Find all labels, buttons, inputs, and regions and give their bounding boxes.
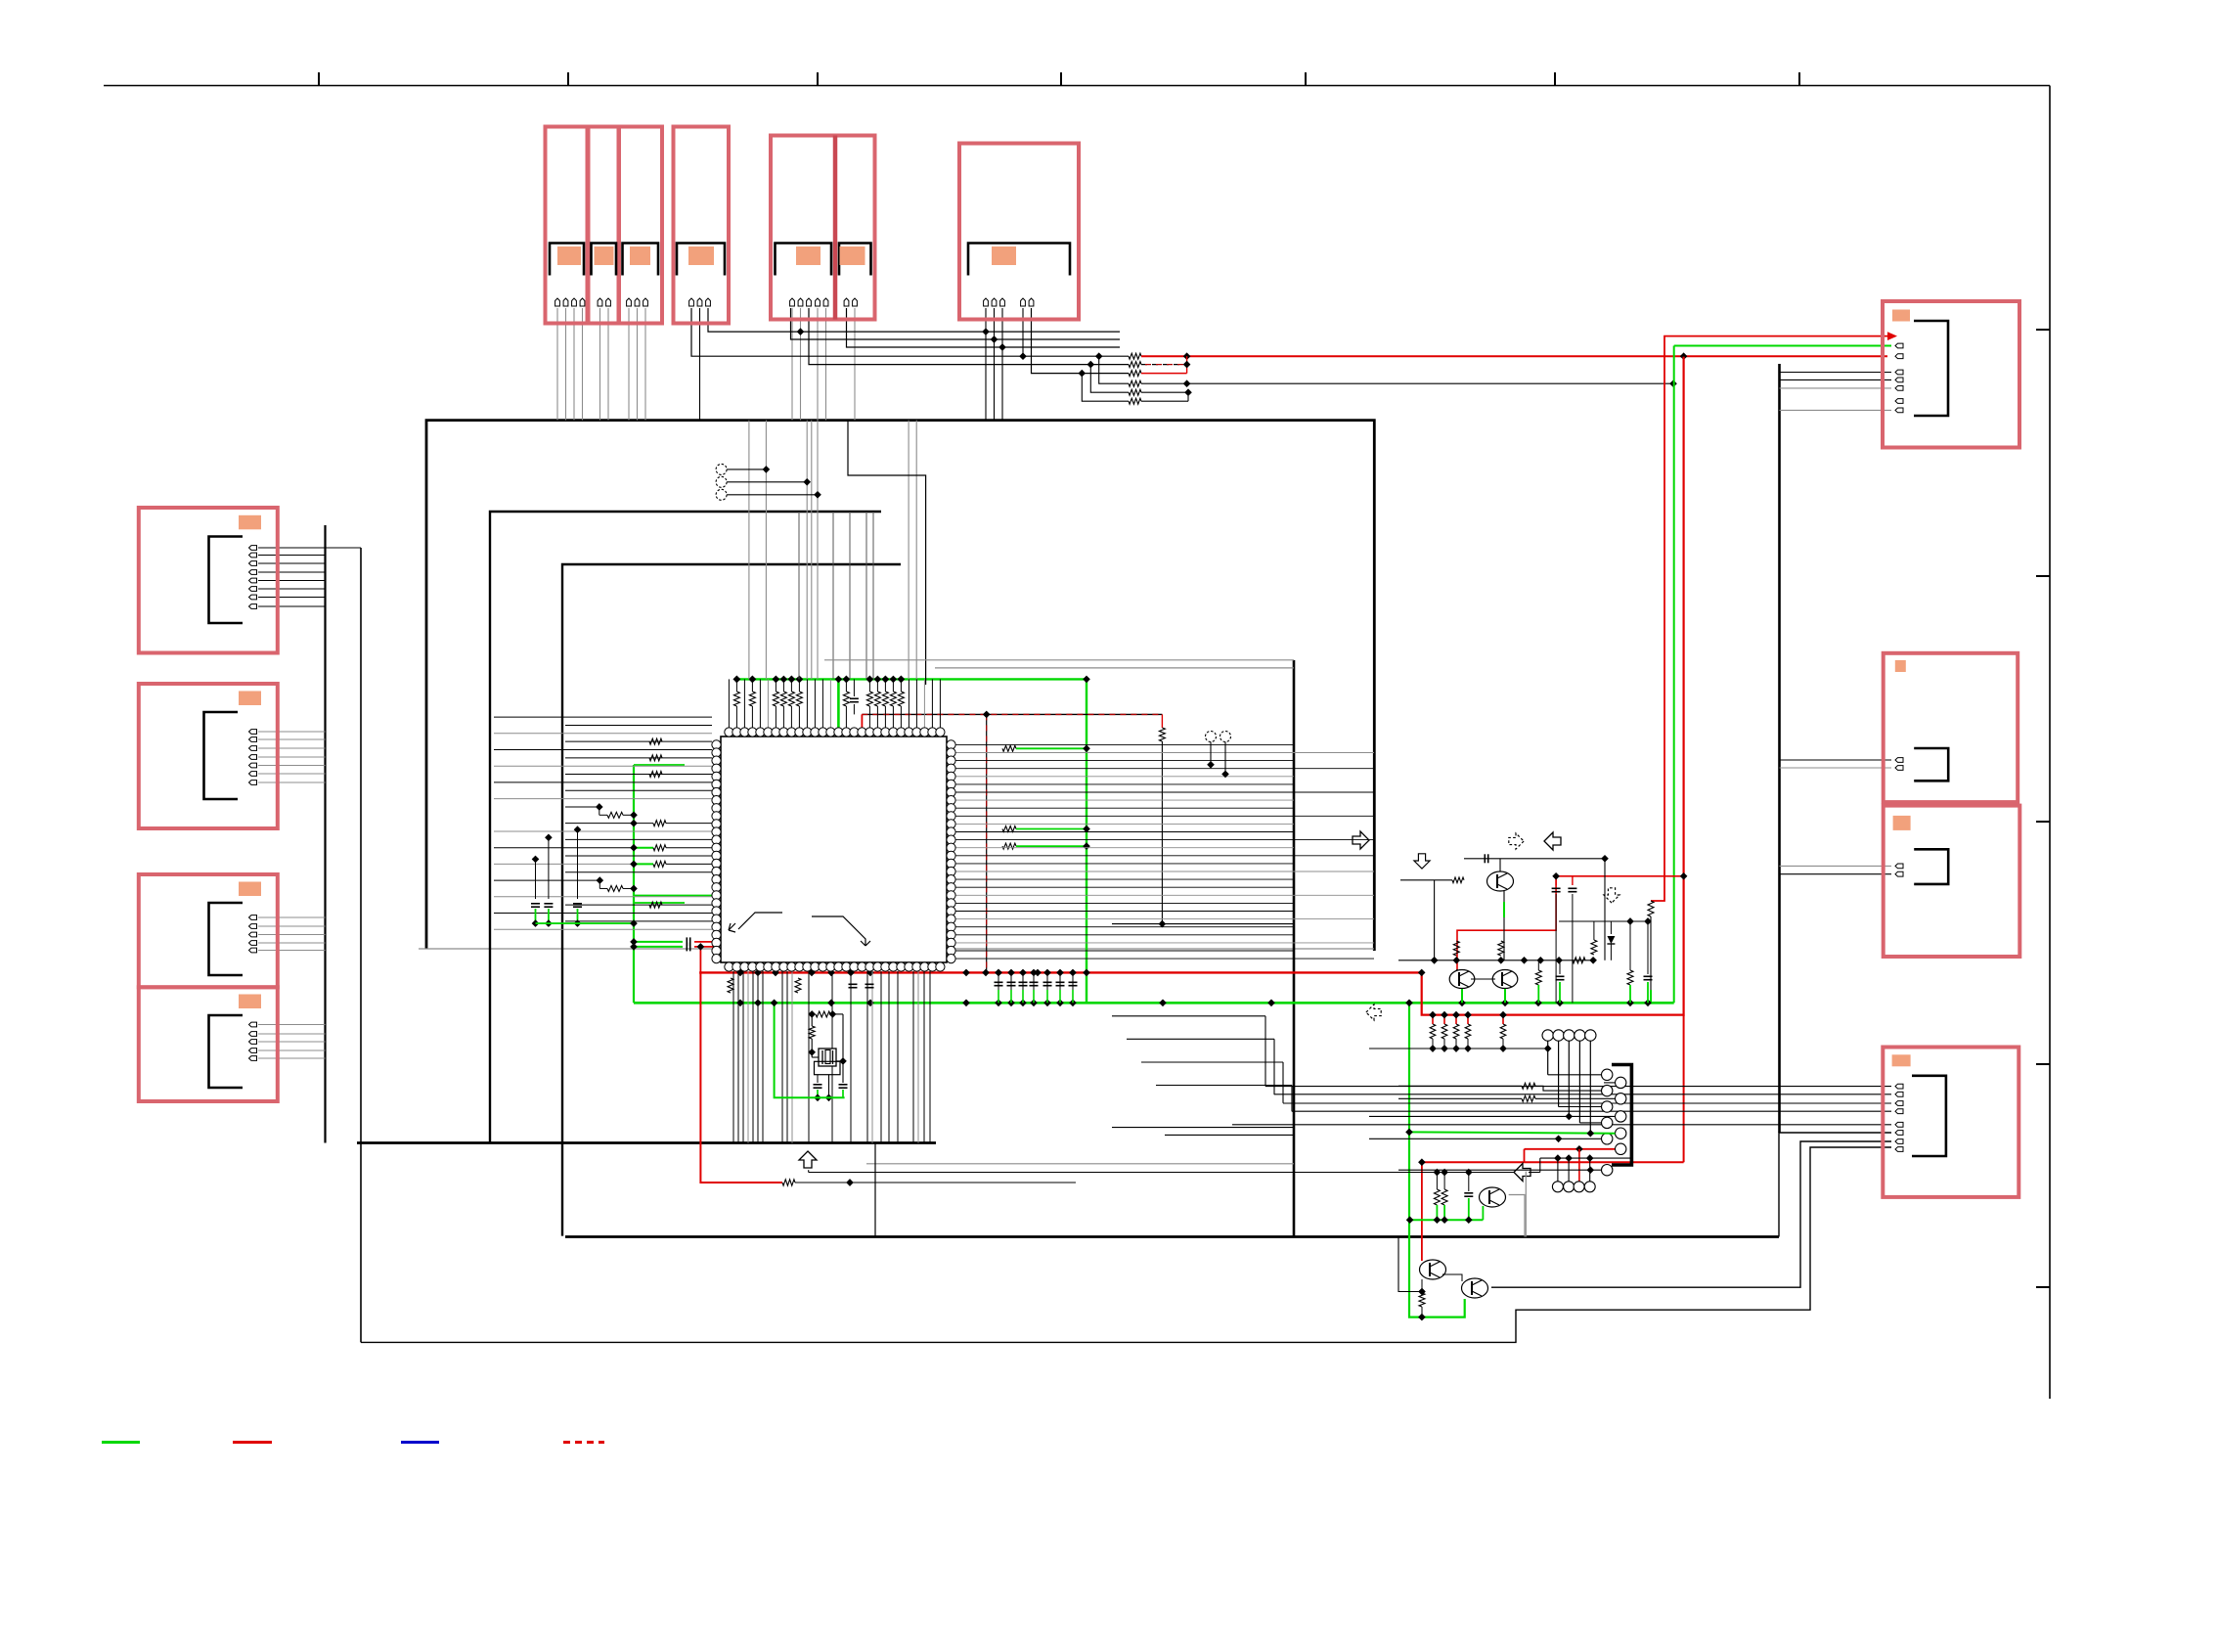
wire IC top pin stub	[908, 679, 909, 732]
bracket CN-L3	[209, 903, 244, 975]
pin CN-L2	[249, 737, 257, 742]
pin IC left	[712, 843, 721, 852]
wire to Rc2	[1535, 1097, 1616, 1099]
junction	[829, 1010, 837, 1018]
wire cap drop	[548, 837, 550, 899]
junction green	[1441, 1216, 1448, 1224]
wire res to green	[790, 679, 792, 692]
wire IC right row	[955, 799, 1294, 801]
pin IC left	[712, 748, 721, 757]
wire IC bottom pin down	[850, 971, 852, 1143]
bracket CN1	[550, 244, 584, 276]
wire TP5 down	[1224, 742, 1226, 775]
junction green bus2	[1501, 999, 1509, 1006]
legend dashed red line	[563, 1441, 604, 1444]
junction	[1441, 1169, 1448, 1177]
wire cap net up	[853, 679, 855, 696]
resistor grid a	[1522, 1083, 1535, 1089]
junction	[1552, 872, 1560, 880]
wire CN-L2 pin	[258, 738, 326, 740]
wire red cap stub	[1555, 876, 1557, 885]
pin IC top	[842, 728, 851, 737]
pin IC bottom	[811, 962, 820, 971]
wire green stub right a	[1016, 747, 1087, 749]
wire IC left row	[494, 863, 634, 865]
wire bus horizontal y1264	[565, 1235, 1779, 1238]
pin IC left	[712, 899, 721, 908]
pin CN3	[635, 298, 640, 306]
junction	[1221, 771, 1229, 779]
pin IC right	[947, 891, 955, 900]
pin IC top	[740, 728, 749, 737]
wire IC top pin stub	[829, 679, 831, 732]
capacitor above IC	[850, 697, 859, 699]
pad circle bottom	[1574, 1182, 1584, 1192]
resistor Q4 base	[1452, 877, 1464, 883]
wire IC bottom pin down	[791, 971, 793, 1143]
wire row5 link	[1141, 391, 1188, 393]
resistor node row	[1573, 958, 1585, 963]
wire IC left row	[565, 855, 712, 857]
connector CN7	[1883, 301, 2019, 448]
arrow left	[1544, 832, 1561, 850]
pin IC bottom	[732, 962, 741, 971]
pin IC bottom	[897, 962, 906, 971]
junction	[814, 491, 821, 499]
wire green stub	[1650, 990, 1652, 1003]
wire IC bottom pin down	[762, 971, 764, 1143]
wire dashed vertical red	[986, 714, 988, 972]
wire right bus x1819	[1778, 364, 1781, 1133]
wire red stub 3	[1455, 1015, 1457, 1024]
junction red bus	[1083, 969, 1090, 977]
wire IC right row	[955, 743, 1294, 745]
pad CN5b	[840, 246, 865, 265]
pin CN7	[1895, 378, 1903, 382]
junction	[1019, 969, 1027, 977]
wire green stub IC left b	[634, 902, 685, 904]
pin CN5	[798, 298, 803, 306]
pin CN-L2	[249, 730, 257, 735]
junction red bus	[1034, 969, 1042, 977]
wire CN pin to bus1264	[1779, 1133, 1891, 1237]
test point TP1	[716, 464, 727, 474]
wire green osc b	[842, 1090, 844, 1097]
resistor IC top	[866, 692, 872, 706]
junction rowB	[991, 335, 998, 343]
transistor Q4	[1487, 871, 1514, 891]
wire CN2 pin down	[599, 308, 601, 421]
wire green stub cap	[634, 946, 683, 948]
wire dashed vertical base	[986, 714, 988, 972]
wire red branch y896	[1556, 875, 1684, 877]
wire res to pin	[735, 706, 737, 733]
wire IC right row	[955, 807, 1294, 809]
wire Q7-Q8	[1442, 1274, 1462, 1281]
wire CN-L3 pin	[258, 950, 326, 952]
connector CN6	[959, 144, 1079, 320]
pin CN-L1	[249, 578, 257, 583]
capacitor below node a	[1556, 975, 1565, 977]
pin CN-L1	[249, 561, 257, 566]
wire res to green	[845, 679, 847, 692]
wire IC left row	[565, 823, 634, 825]
pin IC bottom	[826, 962, 835, 971]
pin CN7	[1895, 386, 1903, 391]
wire diode up	[1610, 921, 1612, 934]
wire red stub 1	[1432, 1015, 1434, 1024]
border tick top	[1060, 72, 1062, 86]
wire below RB4	[1467, 1039, 1469, 1049]
transistor Q8	[1462, 1278, 1488, 1298]
pin IC right	[947, 899, 955, 908]
junction	[1183, 352, 1191, 360]
pin CN6	[992, 298, 997, 306]
wire res to green	[876, 679, 878, 692]
bracket CN4	[677, 244, 725, 276]
resistor IC top	[780, 692, 786, 706]
junction green bus	[866, 676, 874, 684]
pin IC right	[947, 756, 955, 765]
arrow dashed a	[1509, 833, 1524, 849]
wire IC right row	[955, 783, 1294, 785]
pin IC bottom	[936, 962, 945, 971]
wire cap stub	[1046, 972, 1048, 1003]
pin IC left	[712, 827, 721, 836]
pin CN10	[1895, 1101, 1903, 1106]
junction node row	[1555, 957, 1563, 964]
pad circle bottom	[1564, 1182, 1575, 1192]
pin IC right	[947, 812, 955, 821]
junction green bus	[882, 676, 890, 684]
pin IC top	[725, 728, 733, 737]
pin CN6	[1000, 298, 1005, 306]
wire IC right row	[955, 894, 1374, 896]
wire CN6 pin down	[985, 308, 987, 421]
pin CN10	[1895, 1109, 1903, 1114]
wire dashed row2 red overlay	[1145, 364, 1187, 366]
pin IC top	[748, 728, 757, 737]
resistor below node a	[1535, 970, 1541, 985]
connector CN2	[589, 127, 619, 324]
pin IC top	[803, 728, 812, 737]
junction rowC	[998, 343, 1006, 351]
wire IC bottom pin down	[781, 971, 783, 1143]
pin CN-L2	[249, 746, 257, 751]
wire CN-L1 pin	[258, 588, 326, 590]
border tick top	[817, 72, 819, 86]
resistor RN1-4	[1129, 380, 1141, 386]
pin CN-L3	[249, 941, 257, 946]
bracket CN8	[1914, 748, 1948, 781]
junction green	[1406, 1216, 1414, 1224]
resistor RN1-6	[1129, 398, 1141, 404]
junction red bus	[772, 969, 779, 977]
wire to Lc2	[1535, 1086, 1602, 1091]
wire IC bottom pin down	[732, 971, 734, 1143]
wire to CN7 pin gray2	[1780, 409, 1892, 411]
wire step row	[1127, 1038, 1274, 1040]
wire green stub IC left a	[634, 895, 721, 897]
resistor IC left g	[653, 861, 666, 867]
wire IC left row	[565, 904, 712, 906]
pin CN7	[1895, 354, 1903, 359]
wire below resistor	[1161, 741, 1163, 924]
wire x1667	[1629, 921, 1631, 970]
junction green	[1405, 999, 1413, 1006]
pad CN6	[992, 246, 1016, 265]
pin IC bottom	[795, 962, 804, 971]
wire IC right row	[955, 911, 1294, 913]
junction	[1589, 957, 1597, 964]
pin IC bottom	[779, 962, 788, 971]
junction rowA	[797, 328, 805, 335]
pin IC right	[947, 804, 955, 813]
junction	[1069, 969, 1077, 977]
pad CN-L3	[239, 882, 261, 897]
wire IC right row	[955, 760, 1294, 762]
wire res to pin	[868, 706, 870, 733]
wire res up	[1593, 921, 1595, 940]
pin CN-L4	[249, 1056, 257, 1061]
pin IC top	[889, 728, 898, 737]
pin CN10	[1895, 1084, 1903, 1089]
junction green bus2	[1534, 999, 1542, 1006]
wire res to pin	[798, 706, 800, 733]
wire green osc a	[817, 1090, 819, 1097]
wire IC bottom pin down	[737, 971, 739, 1143]
junction green bus2	[1007, 999, 1015, 1006]
wire Q9 collector gray	[1509, 1195, 1525, 1237]
pin IC top	[764, 728, 773, 737]
wire IC left row	[494, 781, 712, 783]
wire red to pin	[694, 941, 716, 943]
junction	[803, 478, 811, 486]
wire IC bottom pin down	[747, 971, 749, 1143]
wire diode down	[1610, 944, 1612, 960]
junction	[1434, 1169, 1442, 1177]
pin CN8	[1895, 766, 1903, 771]
resistor near red net	[1648, 901, 1654, 916]
wire IC right row	[955, 926, 1294, 928]
pin IC top	[912, 728, 921, 737]
pin IC bottom	[740, 962, 749, 971]
connector CN9	[1884, 806, 2020, 957]
wire CN-L1 pin	[258, 555, 326, 557]
wire crystal left lead	[812, 1056, 819, 1058]
junction green2	[1586, 1130, 1594, 1138]
wire CN2 pin down	[607, 308, 609, 421]
wire tap rect2 to IC	[849, 512, 851, 679]
pin IC bottom	[834, 962, 843, 971]
junction green	[630, 919, 638, 927]
capacitor CR	[1030, 981, 1039, 983]
wire green cap rail	[536, 922, 634, 924]
junction	[574, 919, 582, 927]
pin IC top	[787, 728, 796, 737]
wire CN-L1 pin	[258, 580, 326, 582]
wire row4 to right	[1141, 382, 1673, 384]
capacitor below IC a	[849, 983, 858, 985]
junction	[1007, 969, 1015, 977]
pin IC left	[712, 915, 721, 923]
resistor RN1-3	[1129, 371, 1141, 377]
wire to CN8 pin a	[1780, 759, 1892, 761]
wire stub	[1537, 960, 1539, 970]
wire step vert	[1264, 1016, 1266, 1087]
junction	[995, 969, 1002, 977]
wire bus horizontal y1168	[357, 1141, 936, 1144]
wire IC right row	[955, 831, 1294, 833]
wire IC top pin stub	[806, 679, 808, 732]
crystal X1	[815, 1049, 841, 1075]
capacitor to green a	[1644, 975, 1653, 977]
junction green bus2	[1556, 999, 1564, 1006]
resistor IC top	[773, 692, 778, 706]
wire RN row6 lead	[1082, 374, 1129, 402]
pin IC right	[947, 740, 955, 749]
junction green bus	[866, 676, 874, 684]
pin IC right	[947, 843, 955, 852]
pad circle top	[1553, 1030, 1564, 1041]
pad CN5a	[796, 246, 821, 265]
junction cap top	[574, 826, 582, 833]
wire riser x1574	[1539, 1158, 1541, 1172]
wire RN row5 lead	[1090, 365, 1129, 393]
resistor Q5	[1453, 941, 1459, 956]
pin CN5	[823, 298, 828, 306]
junction green bus2	[736, 999, 744, 1006]
wire IC top pin stub	[931, 679, 933, 732]
junction green loop	[1418, 1314, 1426, 1321]
pin IC left	[712, 851, 721, 860]
resistor IC top	[749, 692, 755, 706]
wire vertical long	[817, 421, 819, 680]
resistor IC right b	[1002, 826, 1016, 832]
junction	[814, 1094, 821, 1101]
capacitor series	[686, 942, 688, 951]
resistor to green a	[1627, 970, 1633, 985]
junction rowE	[1087, 361, 1094, 369]
capacitor CR	[995, 981, 1003, 983]
junction green bus2	[995, 999, 1002, 1006]
pin CN5	[844, 298, 849, 306]
junction green bus	[796, 676, 804, 684]
connector CN-L2	[139, 684, 278, 828]
wire RN row4 lead	[1099, 356, 1129, 383]
wire CN4 pin3 row A	[708, 308, 1120, 332]
wire green row Q9	[1410, 1219, 1484, 1221]
wire arrow tail	[1529, 1172, 1540, 1174]
junction	[1586, 1166, 1594, 1174]
pin IC top	[826, 728, 835, 737]
pin IC right	[947, 915, 955, 923]
wire IC bottom pin down	[897, 971, 899, 1143]
wire IC left row	[565, 838, 712, 840]
wire IC right row	[955, 886, 1294, 888]
wire res to green	[782, 679, 784, 692]
junction	[808, 1010, 816, 1018]
resistor RB5	[1500, 1024, 1506, 1039]
wire cap stub	[1022, 972, 1024, 1003]
junction red	[1680, 872, 1688, 880]
wire IC bottom pin down	[757, 971, 759, 1143]
wire IC left row	[565, 920, 712, 922]
wire green vertical x1711	[1673, 346, 1675, 1004]
junction feed	[1452, 1045, 1460, 1052]
junction green bus	[749, 676, 757, 684]
wire CN3 pin down	[637, 308, 639, 421]
junction red	[697, 943, 705, 951]
wire IC left row	[565, 871, 712, 873]
bracket CN-L4	[209, 1015, 244, 1088]
pin IC top	[811, 728, 820, 737]
wire green stub	[1559, 982, 1561, 1003]
wire tap rect2 to IC	[872, 512, 874, 679]
pin IC left	[712, 922, 721, 931]
wire green stub	[634, 847, 653, 849]
wire red rows drop	[1186, 356, 1188, 373]
wire CN-L1 pin	[258, 597, 326, 599]
resistor RB2	[1442, 1024, 1447, 1039]
junction green bus2	[866, 999, 874, 1006]
wire CN-L4 pin	[258, 1033, 326, 1035]
wire green row to Rc4	[1409, 1132, 1616, 1133]
junction red bus	[847, 969, 855, 977]
junction green	[1083, 676, 1090, 684]
wire IC right row	[955, 791, 1374, 793]
wire row5-6 link	[1187, 392, 1189, 401]
pin CN-L1	[249, 587, 257, 592]
wire diode top rail	[1594, 920, 1630, 922]
wire IC left row	[565, 774, 712, 776]
wire IC left row	[494, 830, 712, 832]
test point TP5	[1220, 732, 1231, 742]
wire IC bottom pin down	[929, 971, 931, 1143]
wire green to CN7 pin1	[1674, 345, 1891, 347]
junction step	[596, 803, 603, 811]
pin CN-L1	[249, 553, 257, 558]
wire IC right row	[955, 855, 1374, 857]
resistor grid b	[1522, 1095, 1535, 1101]
wire left bus x332	[324, 525, 326, 1143]
wire red left drop to y1209	[700, 972, 782, 1183]
wire osc right a	[832, 1013, 843, 1015]
pin IC bottom	[881, 962, 890, 971]
pin IC right	[947, 764, 955, 773]
junction green	[1465, 1216, 1473, 1224]
wire to pin	[666, 863, 712, 865]
wire CN-L3 pin	[258, 934, 326, 936]
wire gray pair a	[824, 659, 1294, 661]
pin IC left	[712, 787, 721, 796]
wire step down	[599, 807, 600, 815]
pin IC right	[947, 796, 955, 805]
wire red vertical x1721 down	[1683, 1015, 1685, 1163]
pin CN-L1	[249, 546, 257, 551]
junction green	[630, 844, 638, 852]
pin IC left	[712, 772, 721, 781]
wire res to pin	[900, 706, 902, 733]
wire IC left row	[494, 798, 712, 800]
wire green cap stub2	[998, 990, 999, 1003]
junction green bus2	[754, 999, 762, 1006]
resistor Q7 emitter	[1419, 1293, 1425, 1307]
pin CN-L4	[249, 1032, 257, 1037]
junction rowD	[1019, 352, 1027, 360]
resistor RN1-1	[1129, 353, 1141, 359]
pin IC right	[947, 859, 955, 868]
